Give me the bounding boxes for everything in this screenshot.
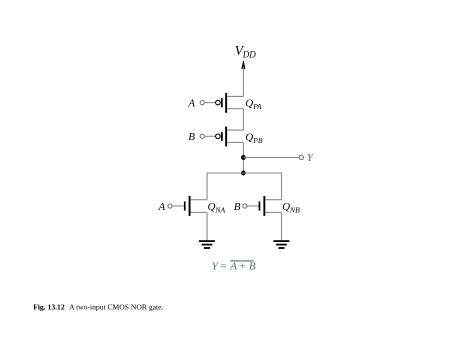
transistor QNB	[259, 196, 282, 216]
output terminal Y (open circle)	[299, 155, 303, 159]
svg-text:B: B	[234, 201, 241, 213]
wire QNB source to ground	[281, 212, 283, 240]
svg-text:Fig. 13.12 A two-input CMOS NO: Fig. 13.12 A two-input CMOS NOR gate.	[33, 303, 163, 312]
wire QPA drain to QPB source	[242, 109, 244, 130]
svg-text:Q: Q	[282, 201, 290, 213]
svg-text:B: B	[188, 131, 195, 143]
svg-text:NB: NB	[289, 205, 300, 214]
transistor QPB	[216, 127, 244, 147]
input terminal B2 (open circle)	[243, 204, 247, 208]
wire A terminal to QNA gate	[172, 205, 184, 207]
svg-text:Y: Y	[212, 260, 220, 272]
input terminal B (open circle)	[200, 134, 204, 138]
label QPB	[245, 131, 263, 145]
junction output node	[241, 155, 246, 160]
svg-text:Q: Q	[245, 131, 253, 143]
svg-text:DD: DD	[242, 50, 256, 60]
svg-text:Q: Q	[245, 98, 253, 110]
wire B terminal to QNB gate	[247, 205, 259, 207]
label QNB	[282, 201, 300, 215]
wire to output terminal Y	[243, 157, 299, 159]
node VDD label	[235, 43, 256, 60]
transistor QNA	[184, 196, 207, 216]
label QPA	[245, 98, 262, 112]
wire rail to QNA drain	[206, 172, 208, 199]
svg-text:B: B	[249, 260, 256, 272]
equation Y = A + B (overline)	[212, 260, 256, 272]
svg-text:PA: PA	[252, 102, 262, 111]
input terminal A (open circle)	[200, 101, 204, 105]
junction rail node	[241, 171, 246, 176]
caption: Fig. 13.12 A two-input CMOS NOR gate.	[33, 303, 163, 312]
svg-text:Q: Q	[208, 201, 216, 213]
label QNA	[208, 201, 226, 215]
svg-text:PB: PB	[252, 136, 263, 145]
wire NMOS drain rail	[207, 172, 281, 174]
wire rail to QNB drain	[281, 172, 283, 199]
svg-text:A: A	[158, 201, 166, 213]
wire QNA source to ground	[206, 212, 208, 240]
svg-text:A: A	[229, 260, 237, 272]
input terminal A2 (open circle)	[168, 204, 172, 208]
svg-text:+: +	[239, 260, 245, 272]
svg-text:=: =	[220, 260, 226, 272]
ground (QNA)	[199, 240, 215, 249]
svg-text:A: A	[187, 98, 195, 110]
transistor QPA	[216, 93, 244, 113]
svg-text:Y: Y	[307, 152, 315, 164]
svg-text:NA: NA	[214, 205, 225, 214]
VDD supply arrow	[241, 60, 245, 97]
wire A terminal to QPA gate	[204, 102, 215, 104]
ground (QNB)	[273, 240, 289, 249]
wire B terminal to QPB gate	[204, 135, 215, 137]
wire QPB drain down to rail	[242, 142, 244, 173]
